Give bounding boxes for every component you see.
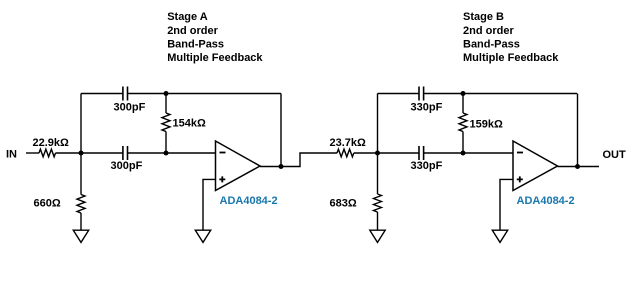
node A4 junction (U1 output) (279, 164, 284, 169)
wire: output lead (578, 166, 600, 168)
wire: node B3 to U2 inverting input (463, 152, 513, 154)
U2 minus sign (517, 152, 523, 154)
svg-text:23.7kΩ: 23.7kΩ (330, 137, 367, 149)
wire: node B1 up to top line (Stage B) (377, 94, 379, 154)
wire: top line left segment to C1 (81, 93, 123, 95)
capacitor C1 300pF (feedback, Stage A) (123, 87, 128, 101)
wire: U2 non-inverting input to ground (500, 179, 513, 230)
resistor R2 154kΩ (feedback, Stage A) (165, 94, 167, 114)
wire: U1 output to feedback node (260, 166, 281, 168)
svg-text:300pF: 300pF (114, 102, 146, 114)
resistor R5 683Ω (to ground, Stage B) (377, 153, 379, 194)
wire: node A1 up to top feedback line (80, 94, 82, 154)
svg-text:660Ω: 660Ω (34, 198, 61, 210)
svg-text:OUT: OUT (603, 149, 627, 161)
wire: U1 non-inverting input to ground (203, 179, 216, 230)
wire: output jog to interstage line (281, 153, 337, 167)
wire: C1 to node A2 (128, 93, 167, 95)
node A2 junction (top of R2) (164, 91, 169, 96)
resistor R3 660Ω (to ground, Stage A) (80, 153, 82, 195)
svg-text:2nd order: 2nd order (167, 25, 218, 37)
resistor R1 22.9kΩ (input, Stage A) (39, 149, 56, 157)
capacitor C4 330pF (series, Stage B) (419, 146, 424, 160)
svg-text:Stage A: Stage A (167, 11, 208, 23)
wire: top line to feedback corner (166, 93, 281, 95)
U2 plus sign (517, 176, 523, 182)
node B2 junction (top of R6) (461, 91, 466, 96)
wire: C2 to node A3 (128, 152, 167, 154)
svg-text:154kΩ: 154kΩ (173, 118, 206, 130)
svg-text:683Ω: 683Ω (330, 198, 357, 210)
svg-text:Band-Pass: Band-Pass (463, 38, 520, 50)
node B4 junction (U2 output) (575, 164, 580, 169)
svg-text:IN: IN (6, 149, 17, 161)
svg-text:Multiple Feedback: Multiple Feedback (463, 52, 559, 64)
capacitor C2 300pF (series, Stage A) (123, 146, 128, 160)
ground (below R5) (370, 230, 385, 242)
svg-text:22.9kΩ: 22.9kΩ (33, 137, 70, 149)
svg-text:330pF: 330pF (411, 160, 443, 172)
svg-text:ADA4084-2: ADA4084-2 (517, 195, 575, 207)
node A1 junction (79, 151, 84, 156)
svg-text:Band-Pass: Band-Pass (167, 38, 224, 50)
wire: node A1 to C2 (81, 152, 123, 154)
wire: node B1 to C4 (378, 152, 420, 154)
wire: top line to feedback corner (Stage B) (463, 93, 577, 95)
svg-text:Multiple Feedback: Multiple Feedback (167, 52, 263, 64)
svg-text:300pF: 300pF (111, 160, 143, 172)
wire: U2 output to feedback node (558, 166, 578, 168)
op-amp U1 ADA4084-2 (Stage A) (216, 141, 261, 191)
wire: C4 to node B3 (424, 152, 463, 154)
wire: feedback vertical from output node to top line (280, 94, 282, 167)
ground (U2 + input) (492, 230, 507, 242)
wire: feedback vertical (Stage B) (577, 94, 579, 167)
svg-text:ADA4084-2: ADA4084-2 (220, 195, 278, 207)
capacitor C3 330pF (feedback, Stage B) (419, 87, 424, 101)
resistor R6 159kΩ (feedback, Stage B) (462, 94, 464, 114)
wire: R1 to node A1 (56, 152, 82, 154)
ground (below R3) (73, 230, 88, 242)
wire: IN lead (26, 152, 39, 154)
wire: node A3 to U1 inverting input (166, 152, 216, 154)
U1 minus sign (220, 152, 226, 154)
U1 plus sign (219, 176, 225, 182)
node B3 junction (bottom of R6) (461, 151, 466, 156)
wire: top line to C3 (378, 93, 420, 95)
svg-text:2nd order: 2nd order (463, 25, 514, 37)
wire: R4 to node B1 (354, 152, 378, 154)
svg-text:159kΩ: 159kΩ (470, 119, 503, 131)
svg-text:330pF: 330pF (411, 102, 443, 114)
resistor R4 23.7kΩ (interstage) (337, 149, 354, 157)
svg-text:Stage B: Stage B (463, 11, 504, 23)
wire: C3 to node B2 (424, 93, 463, 95)
node A3 junction (bottom of R2) (164, 151, 169, 156)
node B1 junction (375, 151, 380, 156)
op-amp U2 ADA4084-2 (Stage B) (513, 141, 558, 191)
ground (U1 + input) (195, 230, 210, 242)
